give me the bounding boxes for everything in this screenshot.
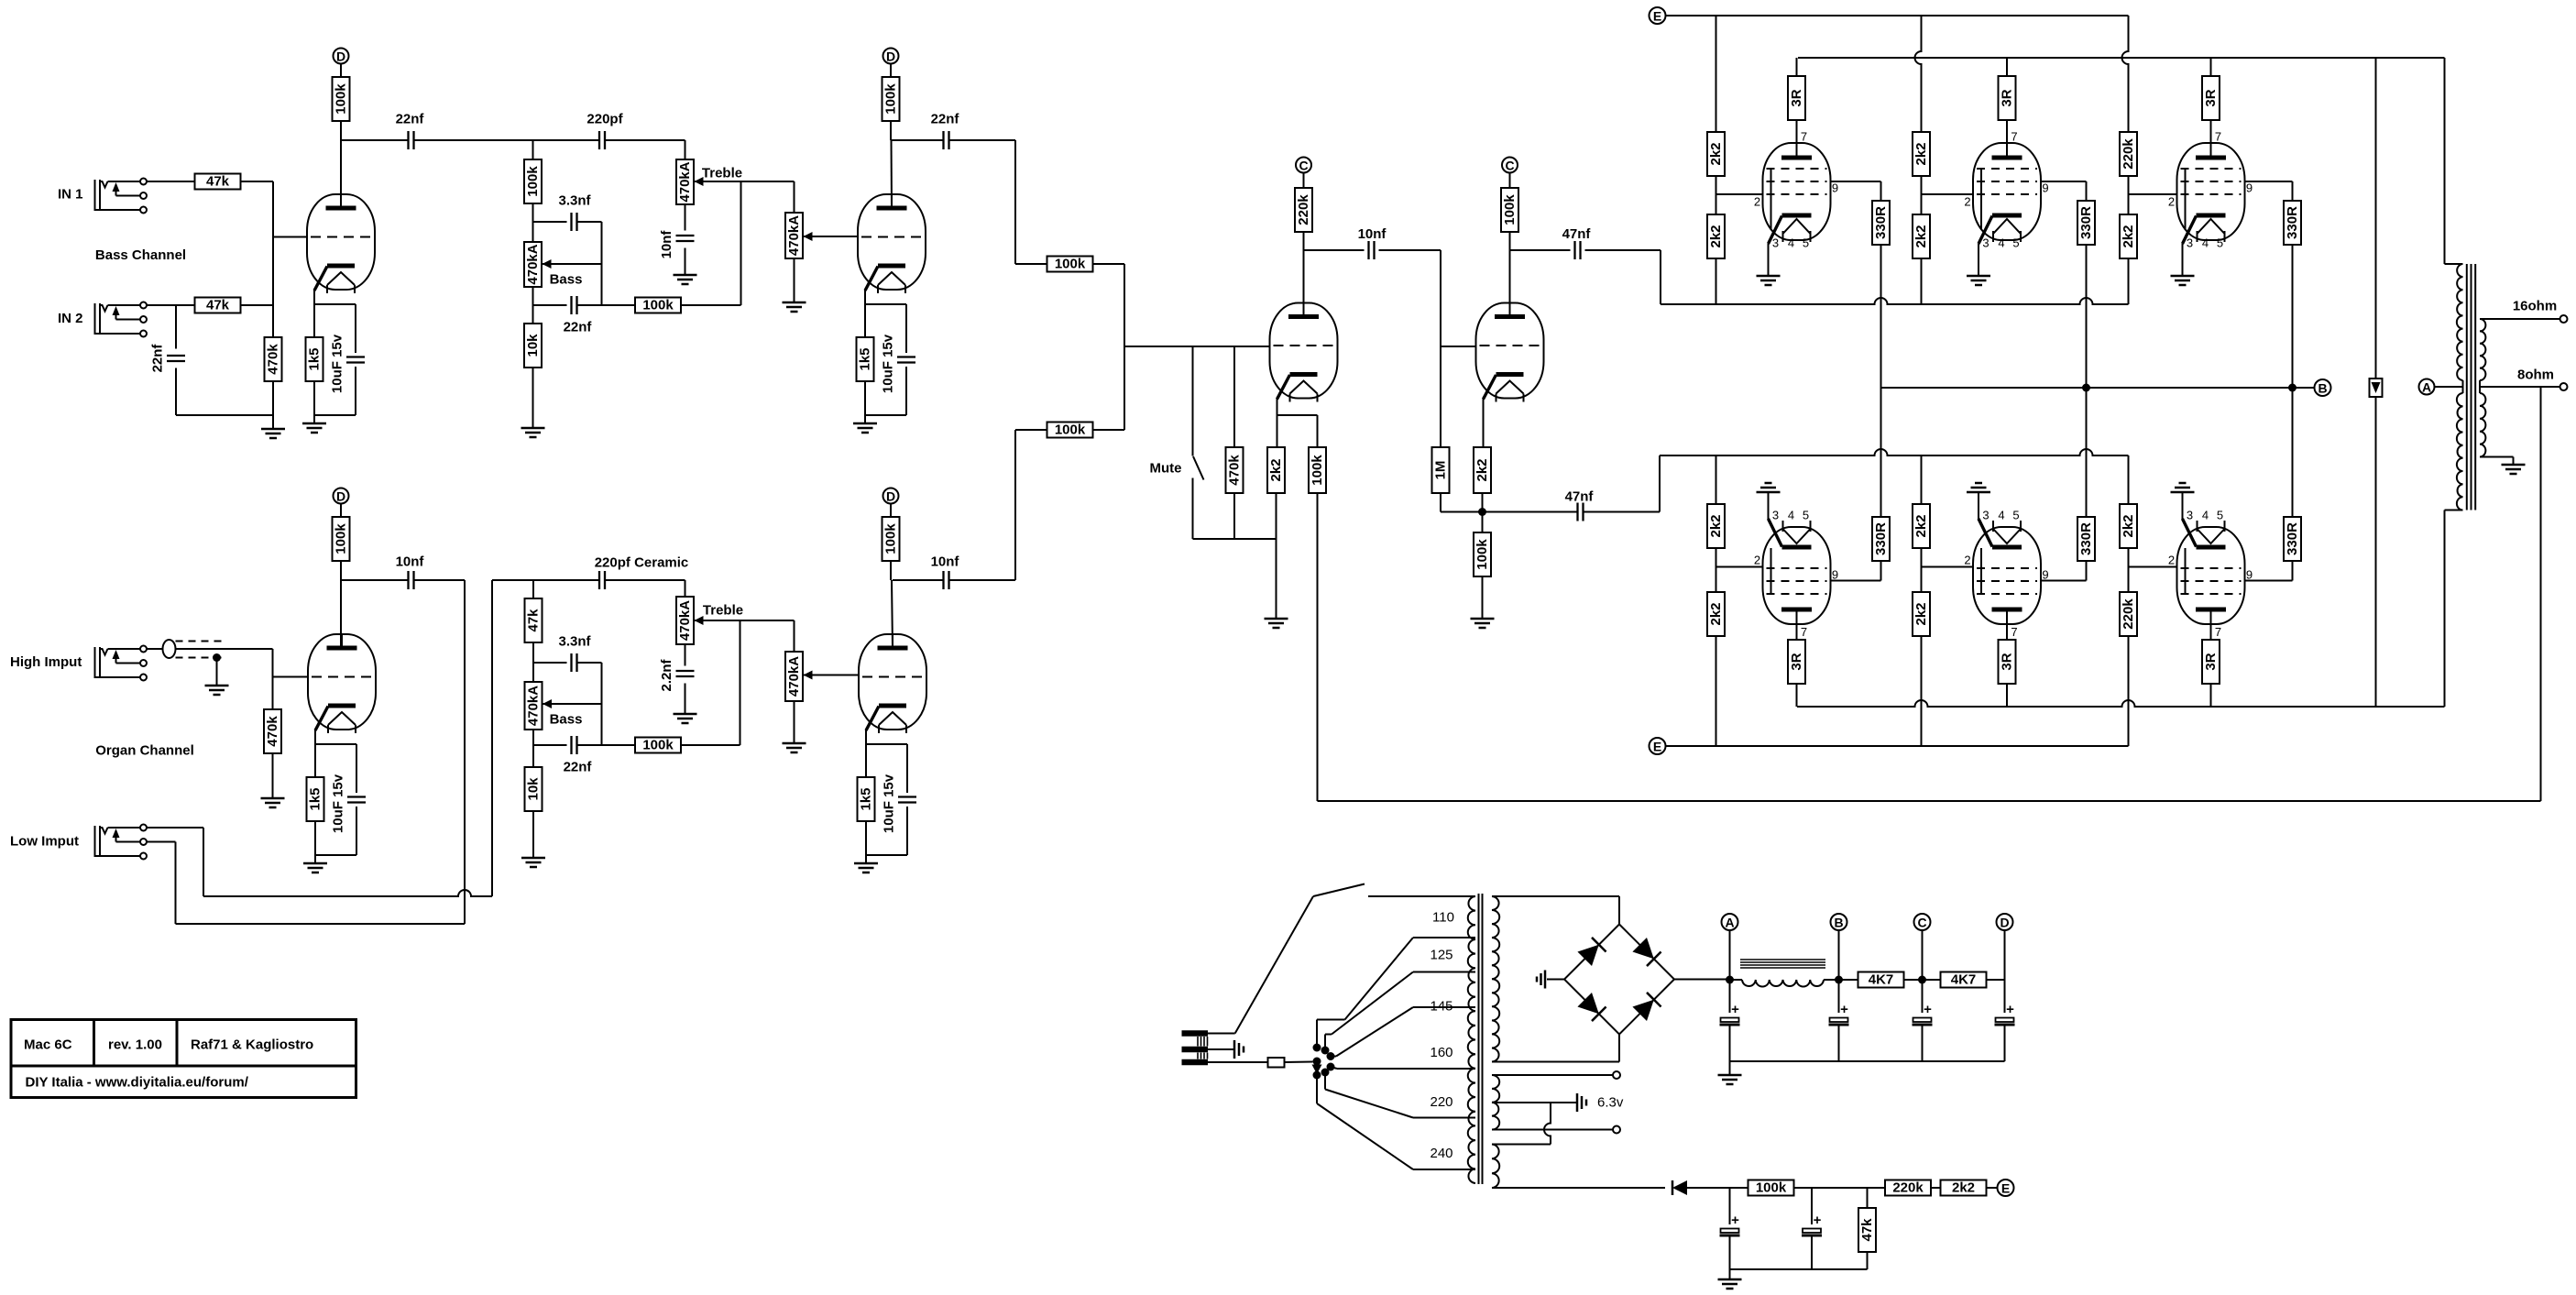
wire plate rail lower xyxy=(1797,700,2445,707)
wire plate V2a xyxy=(340,561,342,648)
mains plug xyxy=(1182,1030,1209,1037)
svg-text:2: 2 xyxy=(1754,195,1760,209)
wire PSU ground rail xyxy=(1730,1060,2005,1062)
resistor 4K7 first xyxy=(1858,972,1904,988)
svg-text:330R: 330R xyxy=(2285,522,2300,555)
wire heater CT xyxy=(1492,1102,1577,1103)
svg-text:IN 1: IN 1 xyxy=(58,187,83,203)
svg-text:470kA: 470kA xyxy=(786,215,802,256)
wire plate V1a xyxy=(340,121,342,208)
triode V3b splitter xyxy=(1476,303,1544,399)
wire low tip bus xyxy=(203,890,492,896)
svg-text:2k2: 2k2 xyxy=(2121,514,2136,537)
wire OPT primary bottom lead xyxy=(2445,510,2463,511)
svg-text:7: 7 xyxy=(1801,130,1807,144)
svg-text:2k2: 2k2 xyxy=(1268,458,1284,481)
svg-text:10nf: 10nf xyxy=(931,554,960,570)
wire A to center tap xyxy=(2435,386,2463,388)
resistor 2k2 signal lower 2 xyxy=(1913,504,1930,548)
wire 100k to riser xyxy=(681,304,741,306)
svg-text:1M: 1M xyxy=(1433,461,1449,480)
resistor 100k plate V3b xyxy=(1501,188,1518,232)
ground cathode upper 2 xyxy=(1967,275,1990,278)
wire cathode branch xyxy=(1277,414,1318,416)
resistor 2k2 signal upper 3 xyxy=(2120,214,2137,258)
wire choke in xyxy=(1730,979,1743,981)
wire 47k top xyxy=(1867,1188,1869,1208)
node D supply 1 xyxy=(334,49,349,64)
wire organ out drop xyxy=(464,580,466,924)
wire organ chain top xyxy=(532,580,534,598)
wire screen upper 1 xyxy=(1831,181,1881,182)
resistor 100k plate V1b xyxy=(882,77,900,121)
svg-text:470k: 470k xyxy=(266,344,281,375)
wire mute drop xyxy=(1192,346,1194,456)
wire plate V1b xyxy=(890,121,892,140)
wire cathode lead xyxy=(314,730,316,777)
svg-text:3: 3 xyxy=(2187,236,2193,250)
transformer OPT primary lower xyxy=(2457,393,2463,510)
svg-text:2k2: 2k2 xyxy=(1708,142,1724,165)
wire 2k2 to E xyxy=(1986,1187,1998,1189)
svg-text:9: 9 xyxy=(1832,181,1838,195)
wire to volume pot xyxy=(794,181,795,213)
svg-text:2k2: 2k2 xyxy=(1913,225,1929,247)
wire 47nf upper out xyxy=(1585,249,1661,251)
wire cathode bottom xyxy=(865,414,906,416)
wire shield to ground xyxy=(216,658,218,686)
wire treble organ to 2.2nf xyxy=(685,644,686,666)
wire V2b out xyxy=(893,579,943,581)
wire cathode lead xyxy=(864,290,866,337)
ground 470k organ xyxy=(261,797,285,800)
wiper Treble organ xyxy=(695,620,703,621)
wire 4K7 to D xyxy=(1986,979,2005,981)
wire grid bus splitter xyxy=(1124,346,1270,347)
capacitor 22nf slope xyxy=(570,296,572,314)
resistor 100k NFB xyxy=(1309,447,1326,493)
svg-text:Organ Channel: Organ Channel xyxy=(95,743,194,759)
wire 3R lower 2 xyxy=(2006,624,2008,640)
resistor 470k (grid leak) xyxy=(265,337,282,381)
wire 47k bottom xyxy=(1867,1252,1869,1269)
ground mains earth xyxy=(1233,1040,1236,1059)
resistor 100k plate V2a xyxy=(333,517,350,561)
svg-text:+: + xyxy=(1840,1002,1848,1017)
wire ecap B xyxy=(1838,1026,1840,1061)
capacitor 220pf bright xyxy=(598,131,600,149)
wire bias rise lower 2 xyxy=(1921,636,1923,746)
switch mains xyxy=(1235,896,1313,1034)
svg-text:220k: 220k xyxy=(1296,194,1311,225)
triode V2b xyxy=(859,634,926,730)
wire 2k2 to tail xyxy=(1482,493,1484,532)
wire cathode V3a xyxy=(1277,398,1278,447)
capacitor 10nf coupling V2b xyxy=(942,571,944,589)
svg-text:3R: 3R xyxy=(2000,653,2015,670)
resistor 1k5 cathode xyxy=(306,337,323,381)
wire bias drop U2 xyxy=(1915,16,1922,132)
svg-text:D: D xyxy=(336,489,345,504)
resistor 2k2 signal upper 2 xyxy=(1913,214,1930,258)
wire HT riser with arrow xyxy=(2375,58,2377,379)
diode bridge BR xyxy=(1632,993,1661,1021)
capacitor electrolytic C xyxy=(1913,1018,1932,1023)
capacitor 10uF 15v cathode xyxy=(905,304,907,353)
wire 330R to bus lower 2 xyxy=(2086,388,2088,517)
svg-text:4: 4 xyxy=(1998,509,2004,522)
transformer OPT secondary lower xyxy=(2480,393,2485,457)
ground PSU xyxy=(1718,1074,1742,1077)
potentiometer 470kA Bass xyxy=(524,242,542,287)
svg-text:6.3v: 6.3v xyxy=(1597,1095,1624,1111)
fuse xyxy=(1268,1058,1285,1068)
ground cathode upper 3 xyxy=(2171,275,2195,278)
wire cathode ground upper 3 xyxy=(2182,244,2184,276)
svg-text:E: E xyxy=(1653,9,1661,24)
resistor 2k2 grid lower 2 xyxy=(1913,592,1930,636)
wire bridge minus xyxy=(1547,979,1564,981)
node D supply 2 xyxy=(883,49,899,64)
svg-text:330R: 330R xyxy=(2078,206,2094,239)
ground cathode xyxy=(302,423,326,425)
svg-text:2: 2 xyxy=(1964,554,1970,567)
wire grid junction upper 3 xyxy=(2128,176,2130,214)
wire HV top xyxy=(1492,895,1619,897)
svg-text:10uF 15v: 10uF 15v xyxy=(882,774,897,833)
capacitor 10uF 15v cathode xyxy=(906,744,908,793)
resistor 3R plate lower 1 xyxy=(1788,640,1805,684)
resistor 3R plate lower 2 xyxy=(1999,640,2016,684)
wire mute bottom xyxy=(1192,478,1194,540)
svg-text:470kA: 470kA xyxy=(677,600,693,641)
svg-text:Mac 6C: Mac 6C xyxy=(24,1037,72,1053)
svg-text:10nf: 10nf xyxy=(1358,226,1387,242)
resistor 2k2 signal lower 1 xyxy=(1707,504,1725,548)
tap 145 xyxy=(1413,1006,1475,1008)
svg-text:3: 3 xyxy=(1982,236,1989,250)
resistor 2k2 signal upper 1 xyxy=(1707,214,1725,258)
wire cathode V3b xyxy=(1483,398,1485,447)
resistor 330R screen upper 3 xyxy=(2284,201,2301,245)
resistor 330R screen lower 2 xyxy=(2077,517,2095,561)
junction C xyxy=(1918,976,1926,984)
potentiometer 470kA Treble organ xyxy=(676,597,694,644)
svg-text:10uF 15v: 10uF 15v xyxy=(330,334,345,393)
capacitor 10nf interstage xyxy=(1367,241,1369,259)
wire grid junction upper 2 xyxy=(1921,176,1923,214)
svg-text:3: 3 xyxy=(2187,509,2193,522)
node E PSU xyxy=(1998,1180,2014,1196)
resistor 1M xyxy=(1432,447,1450,493)
wire mixer organ xyxy=(1015,429,1047,431)
ground volume organ xyxy=(783,742,806,745)
resistor 100k bias xyxy=(1748,1180,1794,1196)
wire mixer bass xyxy=(1015,263,1047,265)
svg-text:2: 2 xyxy=(2168,554,2175,567)
wire switch to primary xyxy=(1368,895,1475,897)
wire 3R upper 1 xyxy=(1796,58,1798,76)
wire D stem xyxy=(2004,930,2006,1013)
svg-text:470k: 470k xyxy=(265,716,280,747)
svg-text:+: + xyxy=(1731,1213,1739,1228)
wire secondary mid xyxy=(2479,380,2481,393)
svg-text:22nf: 22nf xyxy=(396,112,425,127)
wire 10k organ ground xyxy=(532,811,534,858)
svg-text:4K7: 4K7 xyxy=(1869,972,1894,988)
wire 22nf slope branch xyxy=(533,304,567,306)
svg-text:5: 5 xyxy=(2012,509,2019,522)
capacitor 22nf (IN 2) xyxy=(167,355,185,357)
svg-text:Raf71 & Kagliostro: Raf71 & Kagliostro xyxy=(191,1037,313,1053)
wire 22nf to 100k xyxy=(578,304,636,306)
tap 220 xyxy=(1413,1117,1475,1119)
svg-text:100k: 100k xyxy=(1055,257,1086,272)
resistor 220k bias xyxy=(1885,1180,1931,1196)
wire heater top xyxy=(1492,1074,1613,1076)
bridge rectifier xyxy=(1564,925,1674,1035)
resistor 2k2 bias xyxy=(1941,1180,1987,1196)
wire 8ohm tap xyxy=(2480,386,2560,388)
wire A stem xyxy=(1729,930,1731,1013)
diode bias xyxy=(1672,1180,1687,1195)
node B screen supply xyxy=(2315,379,2331,396)
wire 1k5 bottom xyxy=(865,821,867,863)
wire 330R to bus upper 3 xyxy=(2292,245,2294,388)
svg-text:2k2: 2k2 xyxy=(1913,514,1929,537)
wire 470k bottom xyxy=(1233,493,1235,539)
wiper Treble arrow xyxy=(695,181,703,182)
wire tone chain top xyxy=(532,140,534,159)
svg-text:2.2nf: 2.2nf xyxy=(659,658,674,691)
wire 22nf to mixer xyxy=(950,139,1016,141)
resistor 100k tail xyxy=(1474,532,1491,576)
wire tail ground xyxy=(1482,576,1484,619)
svg-text:10uF 15v: 10uF 15v xyxy=(331,774,346,833)
junction tail xyxy=(1478,508,1486,516)
wire C to 220k xyxy=(1303,173,1305,189)
resistor 1k5 cathode xyxy=(857,337,874,381)
wire plug earth xyxy=(1208,1048,1234,1050)
svg-text:2k2: 2k2 xyxy=(1708,602,1724,625)
wire low ring xyxy=(147,841,176,843)
resistor 3R plate lower 3 xyxy=(2202,640,2220,684)
wire 100k organ riser xyxy=(681,744,740,746)
svg-text:3R: 3R xyxy=(2000,89,2015,106)
svg-text:B: B xyxy=(2318,381,2327,396)
ground 10k xyxy=(521,427,545,430)
wire screen upper 2 xyxy=(2041,181,2087,182)
wire 10nf to V3b grid xyxy=(1379,249,1441,251)
svg-text:220k: 220k xyxy=(2121,598,2136,630)
svg-text:D: D xyxy=(886,489,895,504)
resistor 330R screen upper 2 xyxy=(2077,201,2095,245)
wire shield center xyxy=(176,648,273,650)
wire 220k to 2k2 xyxy=(1931,1187,1941,1189)
svg-text:100k: 100k xyxy=(642,738,674,753)
wire plate V3a xyxy=(1303,232,1305,317)
wire signal bus upper xyxy=(1661,298,2129,304)
wire grid junction lower 2 xyxy=(1921,548,1923,592)
svg-text:Bass: Bass xyxy=(550,712,583,728)
wiper volume arrow xyxy=(804,236,812,237)
wire cathode ground lower 2 xyxy=(1978,492,1979,520)
wire bias out xyxy=(1492,1187,1665,1189)
svg-text:A: A xyxy=(1725,916,1734,930)
wire grid tap V1a xyxy=(273,236,307,238)
ground bridge xyxy=(1544,971,1547,989)
wire 10nf to ground xyxy=(685,248,686,276)
wire 1k5 bottom xyxy=(314,821,316,863)
svg-text:C: C xyxy=(1917,916,1926,930)
svg-text:D: D xyxy=(336,49,345,64)
wire low riser xyxy=(491,580,493,896)
svg-text:D: D xyxy=(886,49,895,64)
svg-text:7: 7 xyxy=(1801,625,1807,639)
svg-text:470kA: 470kA xyxy=(677,161,693,202)
junction B xyxy=(1835,976,1843,984)
ground cathode lower 2 xyxy=(1967,491,1990,494)
svg-text:100k: 100k xyxy=(642,298,674,313)
wire 220pf to treble xyxy=(606,139,685,141)
ground 10k organ xyxy=(521,857,545,860)
ground cathode xyxy=(854,862,878,865)
resistor 10k tone xyxy=(524,324,542,368)
node E bias lower xyxy=(1650,738,1666,754)
resistor 330R screen lower 1 xyxy=(1872,517,1890,561)
wire volume to ground xyxy=(794,258,795,302)
svg-text:16ohm: 16ohm xyxy=(2513,299,2557,314)
wire 1k5 bottom xyxy=(313,381,315,423)
svg-text:2: 2 xyxy=(1964,195,1970,209)
triode V2a xyxy=(308,634,376,730)
wire 2.2nf ground xyxy=(685,684,686,715)
svg-text:220k: 220k xyxy=(1892,1180,1924,1196)
wire E rail bottom xyxy=(1666,745,2129,747)
svg-text:10nf: 10nf xyxy=(396,554,425,570)
capacitor 3.3nf organ xyxy=(570,653,572,672)
svg-text:3: 3 xyxy=(1772,236,1779,250)
svg-text:5: 5 xyxy=(1803,236,1809,250)
svg-text:2k2: 2k2 xyxy=(1952,1180,1975,1196)
svg-text:5: 5 xyxy=(1803,509,1809,522)
svg-text:100k: 100k xyxy=(334,523,349,554)
resistor 2k2 cathode V3a xyxy=(1267,447,1285,493)
svg-text:1k5: 1k5 xyxy=(308,787,323,810)
svg-text:Mute: Mute xyxy=(1150,461,1182,477)
wire 4K7 to C xyxy=(1904,979,1942,981)
wire grid feed upper 2 xyxy=(1922,193,1974,195)
wire 2k2 to ground xyxy=(1276,493,1277,619)
node C PSU xyxy=(1914,914,1931,930)
svg-text:3R: 3R xyxy=(2203,89,2219,106)
capacitor 47nf upper xyxy=(1573,241,1575,259)
wire gnd stub xyxy=(1729,1061,1731,1075)
wire 1k5 bottom xyxy=(864,381,866,423)
wire bias rise lower 3 xyxy=(2128,636,2130,746)
capacitor 47nf lower xyxy=(1483,511,1577,513)
wire cathode bottom xyxy=(314,414,356,416)
svg-text:330R: 330R xyxy=(1873,522,1889,555)
transformer core PSU xyxy=(1478,894,1480,1184)
wire OPT primary top lead xyxy=(2444,58,2446,264)
svg-text:7: 7 xyxy=(2011,625,2017,639)
wire grid V3b xyxy=(1441,346,1476,347)
resistor 2k2 cathode V3b xyxy=(1474,447,1491,493)
junction A xyxy=(1726,976,1734,984)
capacitor electrolytic B xyxy=(1830,1018,1848,1023)
resistor 220k grid lower 3 xyxy=(2120,592,2137,636)
arrow HT indicator xyxy=(2370,379,2383,397)
wire 470k top xyxy=(1233,346,1235,447)
svg-text:2k2: 2k2 xyxy=(1474,458,1490,481)
ground 2.2nf xyxy=(674,713,697,716)
svg-text:1k5: 1k5 xyxy=(859,787,874,810)
svg-text:47k: 47k xyxy=(1859,1218,1875,1242)
wire fuse to selector xyxy=(1285,1061,1313,1064)
resistor 100k plate V2b xyxy=(882,517,900,561)
svg-text:2k2: 2k2 xyxy=(1708,225,1724,247)
svg-text:2k2: 2k2 xyxy=(2121,225,2136,247)
wire 22nf to bottom xyxy=(175,368,177,416)
wire screen lower 1 xyxy=(1831,580,1881,582)
wire cathode ground upper 1 xyxy=(1768,244,1770,276)
svg-text:7: 7 xyxy=(2215,130,2221,144)
svg-text:9: 9 xyxy=(2246,181,2253,195)
jack Low Imput xyxy=(94,826,96,857)
svg-text:C: C xyxy=(1299,159,1308,173)
resistor 10k organ xyxy=(525,767,543,811)
svg-text:A: A xyxy=(2422,380,2431,395)
wire 3R lower 3 xyxy=(2210,624,2212,640)
wire E rail top xyxy=(1666,15,2129,16)
wire plate V2b xyxy=(890,561,892,580)
tap 240 xyxy=(1413,1169,1475,1170)
svg-text:1k5: 1k5 xyxy=(307,347,323,370)
transformer OPT core xyxy=(2466,264,2468,510)
wire bridge plus xyxy=(1674,979,1730,981)
wire 3R upper 2 xyxy=(2006,58,2008,76)
wire screen lower 3 xyxy=(2245,580,2293,582)
wire high tip xyxy=(147,648,162,650)
wire bias drop U1 xyxy=(1716,16,1717,132)
resistor 3R plate upper 2 xyxy=(1999,76,2016,120)
transformer OPT secondary upper xyxy=(2480,319,2485,380)
jack High Imput xyxy=(94,647,96,678)
svg-text:3R: 3R xyxy=(1789,653,1804,670)
capacitor 3.3nf xyxy=(570,213,572,231)
wire 22nf to tone xyxy=(415,139,599,141)
wire 10k to ground xyxy=(532,368,534,428)
svg-text:110: 110 xyxy=(1432,910,1454,926)
tap 110 xyxy=(1413,937,1475,938)
wire 470k to ground xyxy=(272,381,274,429)
tap 125 xyxy=(1413,971,1475,973)
wire grid tap V2a xyxy=(273,676,309,678)
wire grid junction lower 1 xyxy=(1716,548,1717,592)
wire to volume organ xyxy=(794,620,795,652)
capacitor electrolytic bias 1 xyxy=(1729,1188,1731,1224)
svg-text:+: + xyxy=(2006,1002,2014,1017)
ground volume pot xyxy=(783,302,806,304)
svg-text:B: B xyxy=(1834,916,1843,930)
svg-text:4: 4 xyxy=(2202,509,2209,522)
wire 3.3nf to drop xyxy=(578,221,602,223)
wire 47nf lower out xyxy=(1584,511,1661,513)
wire signal feed lower xyxy=(1660,449,2129,455)
wire D to 100k organ2 xyxy=(890,504,892,518)
resistor 47k bias xyxy=(1858,1208,1876,1252)
